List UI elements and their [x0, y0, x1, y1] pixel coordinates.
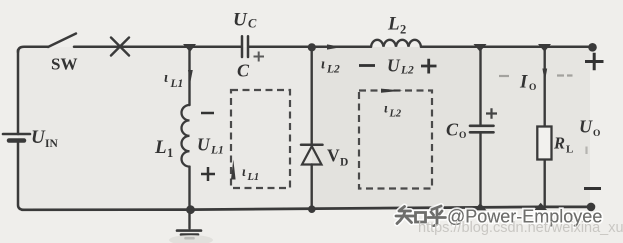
wire top rail right of capacitor — [249, 46, 372, 49]
capacitor Co top plate — [470, 125, 494, 128]
output plus terminal sign — [585, 53, 604, 71]
label plus UL1 — [201, 167, 215, 181]
faint tick below UO — [585, 147, 587, 155]
faint dashes right of Io — [557, 74, 573, 76]
battery UIN short plate — [9, 138, 24, 143]
svg-text:U: U — [387, 56, 401, 76]
svg-text:ι: ι — [321, 57, 325, 73]
battery UIN long plate — [3, 133, 30, 136]
current arrow iL2 on wire (right) — [327, 44, 342, 49]
wire left branch upper — [17, 50, 20, 134]
svg-text:L2: L2 — [400, 65, 414, 77]
svg-text:ι: ι — [164, 70, 168, 86]
node at Co bottom junction — [474, 203, 487, 210]
label plus UL2 — [421, 59, 437, 74]
ground stub — [188, 210, 190, 229]
ground shadow smudge — [169, 235, 213, 243]
diode VD cathode bar — [301, 144, 323, 147]
svg-text:2: 2 — [400, 23, 406, 37]
capacitor C right plate — [247, 36, 250, 57]
wire diode branch lower — [311, 165, 313, 210]
svg-text:L: L — [154, 137, 167, 158]
svg-text:C: C — [248, 17, 257, 31]
faint dash left of Io — [499, 75, 509, 77]
dashed loop box 2 (iL2 loop) — [359, 91, 432, 189]
node at C/VD/L2 junction — [308, 43, 316, 51]
output minus terminal sign — [584, 187, 601, 190]
svg-text:ι: ι — [242, 164, 246, 179]
watermark hanzi ZHI (knows) with white halo — [396, 206, 446, 226]
svg-text:O: O — [459, 131, 466, 141]
node at VD bottom junction — [308, 205, 316, 213]
svg-text:L1: L1 — [247, 172, 260, 183]
svg-text:U: U — [197, 135, 211, 155]
svg-text:ι: ι — [384, 101, 388, 116]
svg-text:R: R — [553, 134, 565, 153]
node at RL bottom junction — [535, 203, 548, 210]
wire RL branch upper — [544, 47, 546, 127]
svg-text:https://blog.csdn.net/weixina_: https://blog.csdn.net/weixina_xu — [418, 220, 623, 236]
wire diode branch upper — [311, 47, 313, 145]
svg-text:U: U — [579, 117, 593, 137]
switch SW blade — [48, 34, 76, 48]
svg-text:D: D — [340, 157, 348, 169]
ground bar 2 — [181, 233, 198, 236]
node top-right output terminal — [588, 43, 597, 52]
wire top rail middle segment — [74, 46, 241, 49]
node bottom-right output terminal — [587, 203, 596, 212]
svg-text:L: L — [387, 14, 400, 35]
svg-text:V: V — [327, 146, 340, 166]
svg-text:L1: L1 — [210, 145, 224, 157]
wire RL branch lower — [544, 160, 546, 207]
current arrow iL1 loop (up) — [231, 160, 236, 180]
wire top rail far right — [421, 46, 593, 49]
inductor L2 — [371, 40, 421, 47]
wire bottom rail — [22, 207, 591, 210]
svg-text:I: I — [519, 73, 528, 93]
wire Co branch lower — [479, 132, 481, 207]
current arrow iL1 on wire (down) — [188, 70, 193, 82]
svg-text:L2: L2 — [389, 109, 402, 120]
wire L1 branch lower — [188, 167, 190, 210]
node at ground junction — [186, 205, 195, 214]
node at L2/Co junction — [474, 44, 487, 52]
wire top rail left segment — [18, 47, 48, 52]
svg-text:O: O — [529, 83, 536, 93]
svg-text:IN: IN — [45, 138, 58, 150]
ground bar 3 — [186, 237, 194, 240]
svg-text:O: O — [593, 129, 600, 139]
label minus UL2 — [359, 64, 375, 67]
breaker X mark — [111, 38, 129, 56]
current arrow iL2 loop (right) — [381, 89, 403, 93]
dashed loop box 1 (iL1 loop) — [231, 90, 290, 188]
svg-text:U: U — [31, 127, 46, 148]
wire left branch lower — [18, 141, 24, 210]
capacitor C left plate — [241, 36, 244, 57]
capacitor C plus sign — [254, 52, 265, 62]
resistor RL body — [537, 127, 551, 160]
svg-text:C: C — [237, 61, 250, 81]
svg-text:U: U — [233, 10, 248, 31]
node at SW/C/L1 junction — [183, 44, 196, 52]
svg-text:1: 1 — [167, 146, 173, 160]
node at RL top junction — [538, 44, 551, 52]
label minus UL1 — [201, 112, 214, 115]
svg-text:L2: L2 — [326, 64, 340, 76]
inductor L1 — [182, 105, 190, 167]
svg-text:C: C — [446, 120, 459, 140]
ground bar 1 — [177, 229, 201, 232]
svg-text:L: L — [566, 144, 573, 156]
capacitor Co plus sign — [486, 108, 497, 119]
svg-text:SW: SW — [51, 55, 77, 74]
capacitor Co bottom plate — [470, 131, 494, 134]
diode VD triangle — [302, 146, 322, 164]
svg-text:L1: L1 — [170, 78, 184, 90]
wire L1 branch upper — [188, 47, 190, 105]
current arrow Io on wire (down) — [542, 69, 547, 82]
wire Co branch upper — [479, 47, 481, 126]
